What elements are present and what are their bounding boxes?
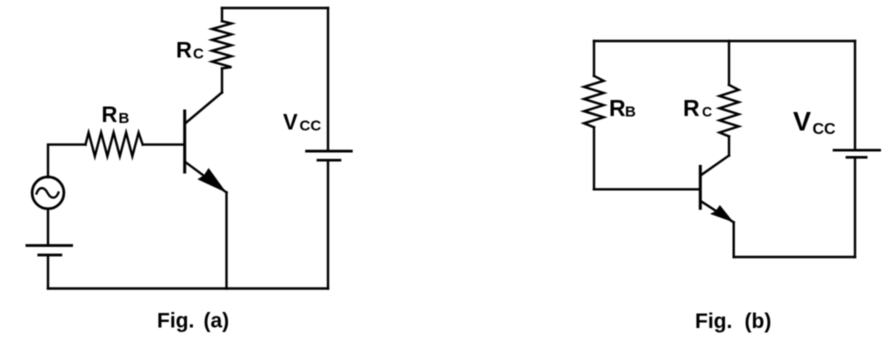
battery Vcc Fig(b) long plate (+) xyxy=(833,149,881,152)
resistor RB Fig(a) zigzag xyxy=(86,133,143,157)
AC source sine wave xyxy=(37,188,59,198)
wire: RC top lead xyxy=(221,8,223,21)
wire: AC source to battery xyxy=(47,209,49,244)
svg-text:Fig.: Fig. xyxy=(157,310,194,333)
transistor Q2 emitter diagonal xyxy=(701,201,734,222)
battery Vcc Fig(a) long plate (+) xyxy=(305,150,353,153)
transistor Q2 base bar xyxy=(699,166,702,208)
wire: Fig(b) RB top lead xyxy=(593,41,595,76)
wire: emitter lead down xyxy=(225,193,227,289)
resistor RC Fig(b) zigzag xyxy=(720,85,739,136)
wire: Fig(b) RC top lead xyxy=(728,41,730,85)
wire: Fig(b) top rail xyxy=(594,40,855,42)
svg-text:C: C xyxy=(702,104,712,120)
svg-text:V: V xyxy=(793,106,811,136)
svg-text:CC: CC xyxy=(300,118,322,135)
svg-text:(a): (a) xyxy=(204,310,230,333)
wire: RB to base xyxy=(143,143,184,145)
svg-text:CC: CC xyxy=(813,121,837,138)
battery source Fig(a) long plate (+) xyxy=(26,244,74,247)
wire: Fig(a) top rail xyxy=(222,7,328,9)
transistor Q1 emitter arrowhead xyxy=(197,168,226,193)
wire: AC source top to RB xyxy=(48,145,86,177)
wire: Fig(b) bottom rail xyxy=(734,256,855,258)
svg-text:R: R xyxy=(683,95,700,121)
svg-text:(b): (b) xyxy=(745,310,772,333)
wire: Fig(a) bottom rail xyxy=(48,287,328,289)
svg-text:B: B xyxy=(625,104,636,121)
svg-text:R: R xyxy=(102,102,118,127)
svg-text:Fig.: Fig. xyxy=(695,310,732,333)
wire: Q2 collector lead up to RC xyxy=(728,136,730,155)
transistor Q1 emitter diagonal xyxy=(185,162,227,193)
resistor RB Fig(b) zigzag xyxy=(584,76,604,127)
wire: Fig(b) right edge upper (Vcc top lead) xyxy=(854,41,856,149)
transistor Q1 base bar xyxy=(183,111,186,172)
battery source Fig(a) short plate (-) xyxy=(37,254,62,257)
resistor RC Fig(a) zigzag xyxy=(212,21,231,68)
svg-text:V: V xyxy=(283,110,298,135)
wire: Fig(b) right edge lower (Vcc bottom lead) xyxy=(854,159,856,258)
svg-text:R: R xyxy=(176,38,192,63)
wire: Fig(a) left edge lower lead xyxy=(47,256,49,289)
svg-text:R: R xyxy=(609,95,626,121)
AC source Vin circle xyxy=(32,177,64,209)
transistor Q2 collector diagonal xyxy=(701,156,729,176)
transistor Q1 collector diagonal xyxy=(185,93,222,124)
wire: Fig(b) RB bottom lead xyxy=(593,127,595,189)
svg-text:B: B xyxy=(119,110,130,127)
wire: Fig(a) right edge upper (Vcc top lead) xyxy=(327,8,329,150)
svg-text:C: C xyxy=(193,46,204,63)
battery Vcc Fig(a) short plate (-) xyxy=(317,159,342,162)
wire: Q2 emitter lead down xyxy=(733,222,735,257)
transistor Q2 emitter arrowhead xyxy=(710,205,734,222)
wire: collector lead up to RC xyxy=(221,68,223,92)
wire: Fig(a) right edge lower (Vcc bottom lead) xyxy=(327,162,329,289)
wire: Fig(b) base wire xyxy=(594,188,700,190)
battery Vcc Fig(b) short plate (-) xyxy=(846,156,868,159)
